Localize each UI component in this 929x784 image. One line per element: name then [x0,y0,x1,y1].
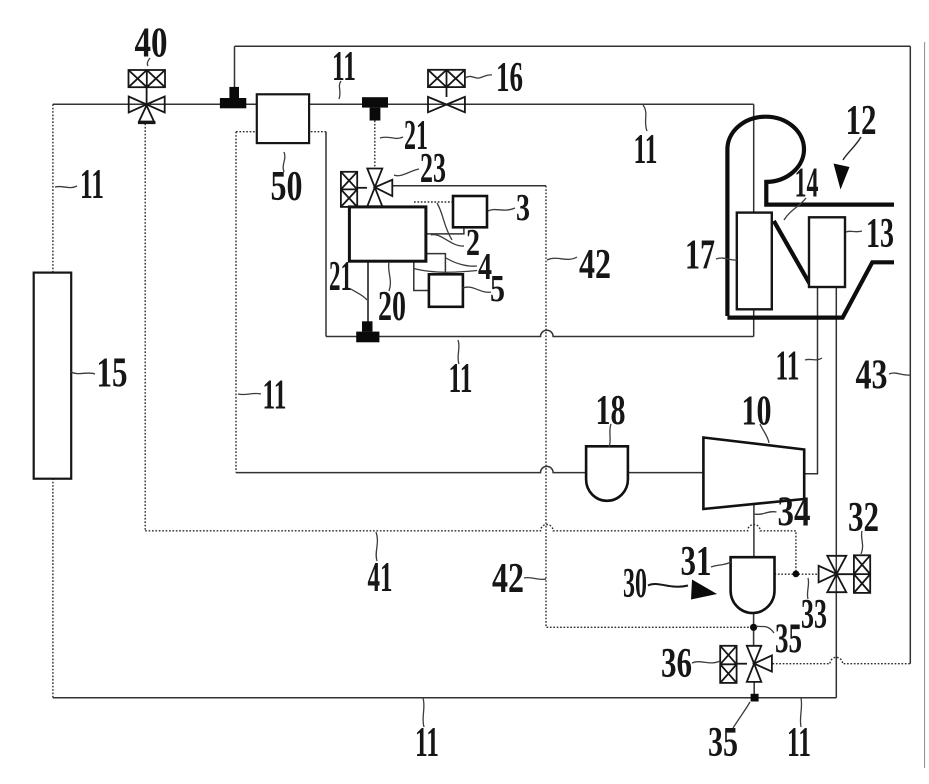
leader line to label 15 [71,372,95,374]
wire dotted to box 3 left [414,201,453,203]
svg-text:21: 21 [329,254,352,300]
device box 5 [429,274,463,307]
scan edge artifact line [924,42,926,768]
svg-text:41: 41 [368,555,393,601]
leader line to label 3 [488,208,515,211]
wire turbine to condenser 30 x754 [753,503,755,558]
svg-text:11: 11 [263,373,287,419]
leader line to label 4 upper [446,258,477,266]
wire box 20 to box 5 lower [414,261,429,290]
leader line to label 35 lower [733,702,750,728]
leader line to label 23 [394,169,419,176]
valve 33 three-way body [819,556,854,592]
leader line to label 10 [760,424,769,443]
leader line to label 11 mid [458,340,459,364]
tee fitting T3 [356,321,379,342]
leader line to label 13 [846,231,862,232]
node junction dot 35 upper [750,624,757,631]
heat exchanger box 17 [737,213,772,310]
svg-text:32: 32 [848,495,879,541]
svg-text:33: 33 [801,592,827,638]
leader line to label 14 [784,198,806,220]
svg-text:11: 11 [332,44,356,90]
valve 36 actuator box [720,646,747,683]
svg-text:42: 42 [579,242,611,288]
svg-text:23: 23 [420,146,446,192]
svg-text:17: 17 [685,233,715,279]
wire pipe 11 inner rect x326 [325,132,327,337]
wire pipe 11 top run y46 [235,46,911,88]
valve 23 actuator box [341,172,367,207]
svg-text:18: 18 [596,388,626,434]
svg-text:13: 13 [866,211,894,257]
leader line to label 42 upper [547,257,577,260]
tee fitting T2 [362,97,388,120]
leader line to label 40 [147,58,150,66]
valve 40 three-way body [129,97,165,122]
leader line to label 11 bottom-right [800,698,801,727]
svg-text:12: 12 [846,98,877,144]
wire condenser 30 bottom stem [753,613,756,695]
svg-text:36: 36 [661,641,692,687]
valve 23 three-way body [367,169,392,207]
leader line to label 5 [463,287,491,292]
svg-text:15: 15 [97,351,128,397]
leader line to label 4 lower [414,269,477,273]
svg-text:11: 11 [776,344,800,390]
damper 14 diagonal [774,221,810,284]
wire main pipe 11 horizontal y104 [53,103,754,105]
leader line to label 43 [889,373,910,375]
svg-text:10: 10 [742,389,772,435]
leader line to label 35 upper [756,626,774,633]
leader line to label 21 lower [351,289,367,300]
leader line to label 11 left [55,186,77,188]
tee fitting T1 [220,87,246,108]
leader line to label 50 [283,152,285,172]
leader line to label 11 top-right [643,105,647,131]
svg-text:11: 11 [787,720,811,766]
heat exchanger box 13 [809,217,845,287]
wire valve 36 outlet y663 [773,657,911,663]
wire pipe 11 left inner vertical x236 [235,132,237,473]
wire condenser 30 to valve 33 y574 [775,573,819,575]
svg-text:5: 5 [490,268,505,310]
leader line to label 31 [711,562,731,567]
leader line to label 21 upper [380,137,403,138]
condenser 30 dome 31 [731,557,775,613]
svg-text:11: 11 [449,356,473,402]
leader lines [55,58,910,728]
wire pipe 11 left vertical x52 [52,104,54,697]
leader line to label 36 [692,661,720,663]
valve 40 seat bar [138,121,156,124]
leader line to label 34 [755,512,777,515]
valve 32 actuator box [854,555,870,593]
svg-text:14: 14 [795,161,819,207]
leader line to label 16 [465,75,492,78]
svg-text:50: 50 [271,164,303,210]
svg-text:43: 43 [856,353,888,399]
svg-text:11: 11 [80,162,104,208]
svg-text:35: 35 [708,720,738,766]
wire box 20 to box 3 [426,227,464,234]
arrow 12 into duct [834,137,862,190]
wire pipe 13 to turbine x817 [804,287,817,474]
svg-text:34: 34 [778,490,811,536]
svg-text:11: 11 [634,127,658,173]
leader line to label 11 bottom [423,698,424,727]
leader line to label 33 [807,578,808,599]
svg-text:31: 31 [681,539,712,585]
device box 20 [349,207,426,261]
leader line to label 11 mid-left [238,393,261,394]
svg-text:3: 3 [516,187,530,229]
svg-text:16: 16 [496,55,523,101]
svg-text:40: 40 [135,21,168,67]
svg-text:20: 20 [378,284,406,330]
arrow 30 pointer [648,580,717,600]
svg-text:35: 35 [775,617,802,663]
leader line to label 42 lower [524,578,546,580]
svg-text:42: 42 [492,556,524,602]
wire box 20 to box 5 upper [426,254,446,275]
separator 18 dome [586,446,628,501]
leader line to label 2 lower [431,235,464,246]
turbine 10 [703,438,804,510]
device box 3 [453,196,487,227]
valve 40 actuator box [129,70,166,104]
wire line 41 from valve 40 [145,124,796,574]
leader line to label 18 [609,424,611,447]
leader line to label 2 upper [437,203,452,240]
svg-text:30: 30 [623,561,647,607]
leader line to label 17 [716,258,737,260]
wire steam line y472 to turbine with jump [236,466,703,472]
wire pipe 21 lower x368 [367,261,369,321]
leader line to label 11 right [805,358,822,360]
tank 15 [34,273,71,479]
valve 36 three-way body [747,646,772,682]
controller box 50 [257,94,309,143]
node junction square 35 lower [751,694,759,702]
leader line to label 20 [389,262,391,291]
node junction dot 41/33 [793,571,800,578]
wire line 43 right vertical [909,46,911,663]
wire pipe 11 bottom run y697 [53,697,836,699]
wire pipe 11 horizontal y336 with jump [326,330,754,336]
wire pipe 11 right vertical x753 through heat exchanger [753,104,755,336]
leader line to label 11 top-left [339,81,341,99]
leader line to label 32 [861,531,863,554]
valve 16 body [428,97,465,112]
wire pipe 21 upper x374 [374,121,376,169]
wire line 42 from valve 23 [392,185,546,187]
wire pipe x836 duct to bottom [835,287,837,698]
leader line to label 41 [376,532,377,561]
svg-text:11: 11 [415,720,439,766]
wire pipe 11 y131 behind box 50 [236,131,326,133]
exhaust duct 12 thick outline with coil loop [727,117,894,318]
valve 16 actuator box [428,70,465,97]
